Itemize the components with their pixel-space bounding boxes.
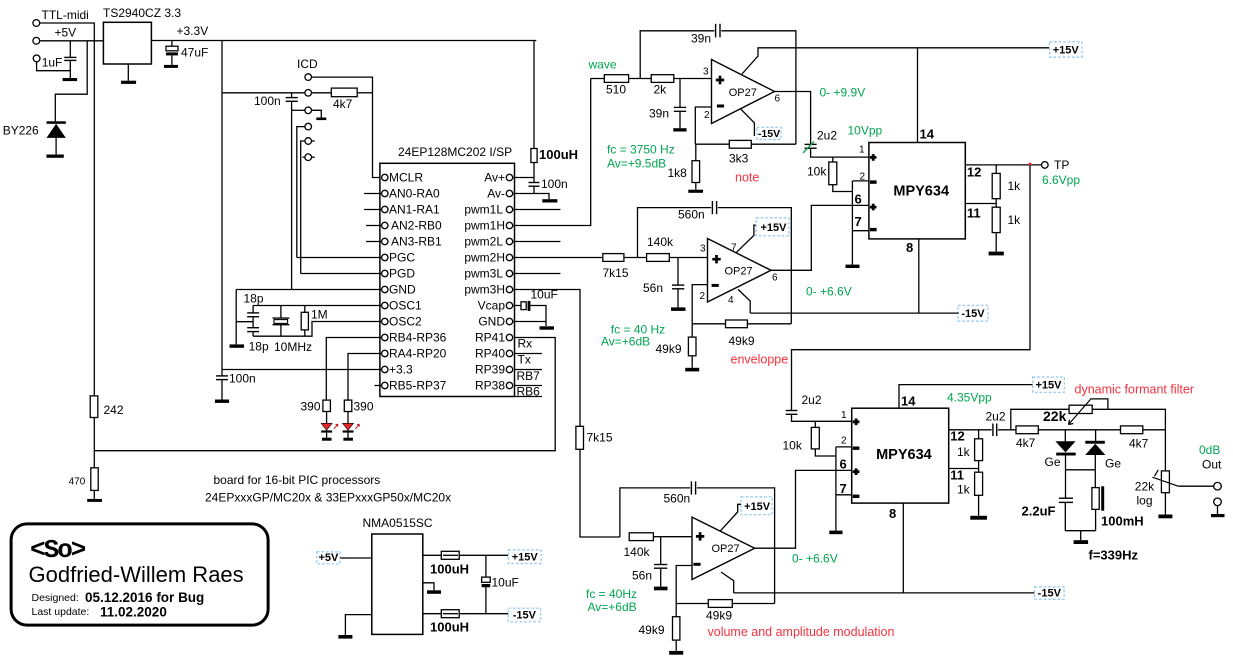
wire ICD pin1 to MCLR — [312, 77, 382, 177]
resistor 3k3 — [695, 143, 729, 145]
resistor 242 — [90, 396, 98, 418]
capacitor 18p upper — [252, 306, 254, 313]
test point TP — [1042, 162, 1049, 169]
svg-text:2: 2 — [860, 172, 866, 183]
svg-text:470: 470 — [69, 477, 86, 488]
svg-text:AN3-RB1: AN3-RB1 — [391, 235, 442, 249]
svg-text:6.6Vpp: 6.6Vpp — [1042, 173, 1080, 187]
svg-text:+15V: +15V — [512, 551, 539, 563]
svg-text:39n: 39n — [691, 32, 711, 46]
wire V- to -15V volume — [721, 572, 734, 593]
svg-text:14: 14 — [901, 394, 916, 409]
wire RB5 stub — [375, 385, 382, 387]
connector TTL-midi pin 1 — [33, 20, 40, 27]
capacitor 100n on +3.3 rail — [216, 375, 228, 377]
capacitor 2u2 — [805, 143, 817, 145]
ground under LED left — [322, 438, 332, 441]
pin PGC — [382, 254, 388, 260]
wire RP39 stub — [515, 369, 543, 371]
wire volume output to MPY2 pin6 — [755, 470, 852, 548]
capacitor 47uF — [171, 41, 173, 47]
svg-text:2: 2 — [700, 291, 706, 302]
wire Av- to ground — [513, 194, 549, 200]
svg-text:6: 6 — [855, 192, 862, 207]
svg-text:fc = 3750 Hz: fc = 3750 Hz — [607, 143, 675, 157]
wire RB4 to LED — [326, 338, 381, 401]
svg-text:22k: 22k — [1043, 408, 1067, 424]
svg-text:24EPxxxGP/MC20x & 33EPxxxGP50x: 24EPxxxGP/MC20x & 33EPxxxGP50x/MC20x — [205, 491, 451, 505]
svg-text:Av+: Av+ — [484, 171, 505, 185]
ground under 1k MPY2 — [970, 516, 987, 520]
svg-text:1k: 1k — [957, 445, 971, 459]
svg-text:242: 242 — [104, 403, 124, 417]
svg-text:+3.3: +3.3 — [389, 363, 413, 377]
wire pwm2L stub — [513, 241, 561, 243]
svg-text:100n: 100n — [541, 177, 568, 191]
svg-text:+5V: +5V — [55, 26, 77, 40]
svg-text:49k9: 49k9 — [656, 342, 682, 356]
resistor 1k upper — [995, 165, 997, 174]
power label -15V bottom — [1035, 587, 1065, 600]
pin +3.3 — [382, 366, 388, 372]
connector ICD pin 1 — [305, 74, 312, 81]
svg-text:AN1-RA1: AN1-RA1 — [389, 203, 440, 217]
resistor 1k upper MPY2 — [978, 430, 980, 439]
svg-text:PGC: PGC — [389, 251, 415, 265]
wire envelope output to MPY1 pin6 — [771, 205, 869, 270]
wire inverting input envelope — [692, 285, 707, 324]
resistor 1k lower MPY2 — [975, 472, 983, 495]
svg-text:11.02.2020: 11.02.2020 — [100, 605, 167, 620]
wire 18p mid node — [252, 317, 254, 328]
wire pin12 to TP — [965, 164, 1041, 166]
capacitor 56n — [677, 258, 679, 285]
wire 7k15 down to volume stage — [580, 449, 620, 537]
svg-text:10MHz: 10MHz — [274, 340, 312, 354]
resistor 4k7 left — [1016, 426, 1038, 434]
svg-text:+3.3V: +3.3V — [177, 24, 209, 38]
svg-text:100n: 100n — [254, 94, 281, 108]
svg-text:wave: wave — [588, 58, 617, 72]
svg-text:10uF: 10uF — [492, 576, 519, 590]
svg-text:47uF: 47uF — [181, 46, 208, 60]
wire Av+ — [513, 177, 534, 179]
connector ICD pin 6 — [305, 154, 312, 161]
connector TTL-midi pin 2 — [33, 37, 40, 44]
svg-text:RP39: RP39 — [475, 363, 505, 377]
capacitor 2.2uF — [1065, 470, 1067, 498]
power label +15V mid — [756, 218, 789, 236]
wire pin3 to 1uF bottom — [37, 62, 71, 71]
microcontroller U1 24EP128MC202 — [380, 163, 515, 396]
wire pin11 — [965, 203, 996, 205]
svg-text:4k7: 4k7 — [333, 97, 353, 111]
svg-text:RB7: RB7 — [517, 369, 541, 383]
wire LC bottom — [1065, 530, 1095, 532]
ground under 470 — [93, 490, 95, 499]
ground under 49k9 — [685, 368, 699, 372]
ground under bracket — [846, 265, 860, 268]
svg-text:2u2: 2u2 — [986, 410, 1006, 424]
svg-text:1uF: 1uF — [42, 56, 63, 70]
svg-text:49k9: 49k9 — [729, 334, 755, 348]
wire envelope feedback up — [638, 208, 712, 258]
wire node A — [629, 78, 652, 80]
wire op-amp V+ to +15V rail — [742, 48, 1050, 74]
svg-text:3: 3 — [700, 244, 706, 255]
ground at ICD pin3 — [316, 118, 326, 121]
ground under LC — [1074, 540, 1089, 544]
svg-text:49k9: 49k9 — [706, 609, 732, 623]
svg-text:MPY634: MPY634 — [876, 447, 932, 463]
svg-text:510: 510 — [606, 83, 626, 97]
wire ground bracket MPY2 — [835, 447, 837, 531]
power label -15V NMA — [508, 608, 540, 622]
ground of oscillator — [230, 344, 245, 347]
wire RP41 return line — [94, 338, 555, 451]
resistor 1k lower — [992, 207, 1000, 232]
capacitor 10uF at Vcap — [513, 305, 521, 307]
pin pwm1H — [506, 222, 512, 228]
wire 100n down to GND net — [291, 101, 293, 289]
ground under LED right — [343, 438, 353, 441]
svg-text:TS2940CZ 3.3: TS2940CZ 3.3 — [103, 6, 181, 20]
LED red right — [343, 423, 354, 430]
wire pin14 to +15V — [917, 48, 919, 143]
wire formant node — [998, 429, 1016, 431]
wire pin8 to -15V MPY2 — [902, 503, 904, 593]
wire diode link — [1066, 469, 1096, 471]
capacitor 2u2 formant — [992, 424, 994, 437]
svg-text:Av=+9.5dB: Av=+9.5dB — [607, 156, 666, 170]
capacitor 39n shunt — [679, 79, 681, 108]
crystal 10MHz — [280, 306, 282, 319]
svg-text:+15V: +15V — [744, 501, 771, 513]
wire 560n to feedback vertical — [697, 488, 775, 604]
ground under out — [1211, 514, 1225, 517]
capacitor 560n envelope — [711, 201, 713, 214]
svg-text:enveloppe: enveloppe — [731, 353, 789, 367]
connector ICD pin 4 — [305, 123, 312, 130]
svg-text:pwm1L: pwm1L — [464, 203, 503, 217]
wire pwm3H down — [513, 290, 580, 427]
junction dot red — [1029, 163, 1032, 166]
svg-text:4k7: 4k7 — [1129, 437, 1149, 451]
ground under 56n volume — [654, 587, 668, 591]
svg-text:+15V: +15V — [1053, 44, 1080, 56]
svg-text:1k8: 1k8 — [668, 166, 688, 180]
svg-text:8: 8 — [889, 506, 896, 521]
svg-text:100uH: 100uH — [539, 147, 578, 162]
pin pwm3L — [506, 270, 512, 276]
resistor 1M — [304, 306, 306, 313]
wire AN2 stub — [366, 225, 382, 227]
pin AN2-RB0 — [382, 222, 388, 228]
svg-text:note: note — [735, 171, 759, 185]
pin RP40 — [506, 350, 512, 356]
potentiometer 22k log — [1161, 471, 1169, 493]
svg-text:pwm3H: pwm3H — [464, 283, 505, 297]
svg-text:Av=+6dB: Av=+6dB — [588, 600, 637, 614]
svg-text:11: 11 — [950, 468, 964, 483]
wire +5V to regulator — [40, 40, 104, 42]
svg-text:NMA0515SC: NMA0515SC — [363, 516, 433, 530]
resistor 10k — [832, 157, 834, 162]
diode Ge left — [1064, 430, 1066, 443]
ground under 1k8 — [688, 190, 703, 193]
capacitor 100n at ICD — [291, 93, 293, 98]
wire pot to right vertical — [1092, 409, 1165, 471]
svg-text:22k: 22k — [1135, 480, 1155, 494]
svg-text:OSC2: OSC2 — [389, 315, 422, 329]
wire ICD pin6 stub — [303, 156, 305, 158]
wire RA4 to LED — [348, 354, 382, 401]
wire OSC2 line — [253, 322, 382, 337]
power label -15V mid — [958, 305, 988, 321]
svg-text:14: 14 — [920, 127, 935, 142]
svg-text:8: 8 — [906, 240, 913, 255]
wire AN3 stub — [366, 241, 382, 243]
svg-text:Rx: Rx — [518, 337, 533, 351]
ground under 100n — [215, 400, 229, 403]
resistor 470 — [91, 468, 98, 491]
wire feedback up — [640, 31, 714, 79]
wire VDD to ICD pin2 — [222, 92, 305, 94]
resistor 4k7 — [312, 92, 332, 94]
wire RP40 stub — [515, 353, 543, 355]
wire ICD pin5 to PGD — [301, 141, 305, 274]
connector ICD pin 2 — [305, 90, 312, 97]
svg-text:-15V: -15V — [758, 128, 780, 140]
ground under 39n — [673, 128, 686, 131]
wire pwm2H — [513, 257, 603, 259]
svg-text:f=339Hz: f=339Hz — [1089, 548, 1139, 563]
svg-text:0- +6.6V: 0- +6.6V — [806, 285, 852, 299]
svg-text:OSC1: OSC1 — [389, 299, 422, 313]
ground under 56n — [671, 307, 686, 311]
wire wiper to out — [1152, 470, 1178, 486]
svg-text:6: 6 — [772, 273, 778, 284]
wire PGC line — [297, 257, 382, 259]
pin RB5-RP37 — [382, 382, 388, 388]
wire NMA input return to ground — [345, 615, 371, 635]
wire TP node to MPY2 — [792, 165, 1031, 410]
svg-text:ICD: ICD — [297, 57, 318, 71]
svg-text:Out: Out — [1202, 458, 1222, 472]
svg-text:100uH: 100uH — [430, 562, 469, 577]
svg-text:BY226: BY226 — [3, 124, 39, 138]
svg-text:pwm1H: pwm1H — [464, 219, 505, 233]
svg-text:-15V: -15V — [1038, 587, 1062, 599]
svg-text:1k: 1k — [957, 483, 971, 497]
svg-text:0- +9.9V: 0- +9.9V — [820, 86, 866, 100]
pin RP41 — [506, 334, 512, 340]
resistor 49k9 shunt volume — [675, 604, 677, 617]
wire pwm1H to wave — [513, 79, 591, 226]
svg-text:7k15: 7k15 — [603, 266, 629, 280]
svg-text:6: 6 — [840, 457, 847, 472]
svg-text:12: 12 — [950, 429, 964, 444]
wire pin8 to -15V — [918, 239, 920, 313]
pin RA4-RP20 — [382, 350, 388, 356]
svg-text:2k: 2k — [654, 83, 668, 97]
wire pin14 to +15V MPY2 — [899, 385, 1033, 409]
wire +5V to NMA — [340, 557, 372, 559]
wire PGD line — [301, 273, 382, 275]
svg-text:-15V: -15V — [961, 308, 985, 320]
power label -15V top — [757, 127, 781, 140]
ground under 1uF — [63, 78, 78, 81]
wire Vcap to ground — [530, 306, 546, 327]
multiplier MPY634 upper — [869, 143, 965, 239]
svg-text:RB4-RP36: RB4-RP36 — [389, 331, 447, 345]
svg-text:fc = 40Hz: fc = 40Hz — [586, 587, 637, 601]
wire pwm1L stub — [513, 209, 561, 211]
inductor 100uH plus — [423, 554, 442, 556]
diode BY226 — [47, 121, 66, 124]
svg-text:Ge: Ge — [1105, 457, 1121, 471]
wire GND line — [236, 289, 381, 291]
svg-text:MPY634: MPY634 — [893, 184, 949, 200]
svg-text:100uH: 100uH — [430, 620, 469, 635]
connector TTL-midi pin 3 — [33, 55, 40, 62]
svg-text:3: 3 — [703, 67, 709, 78]
power label +5V NMA — [317, 552, 340, 564]
svg-text:18p: 18p — [244, 292, 264, 306]
svg-text:dynamic formant filter: dynamic formant filter — [1075, 383, 1194, 397]
capacitor 2u2 into MPY2 — [786, 410, 798, 412]
svg-text:560n: 560n — [664, 492, 691, 506]
wire GND branch down — [235, 290, 237, 345]
svg-text:7k15: 7k15 — [587, 431, 613, 445]
svg-text:2: 2 — [841, 436, 847, 447]
resistor 1k8 — [695, 144, 697, 161]
svg-text:1k: 1k — [1008, 213, 1022, 227]
pin GND right — [506, 318, 512, 324]
wire inverting input — [695, 107, 711, 144]
resistor 7k15 horizontal — [603, 254, 624, 262]
svg-text:56n: 56n — [632, 569, 652, 583]
resistor 390 left — [323, 400, 331, 411]
svg-text:1: 1 — [841, 410, 847, 421]
wire +3.3V rail — [151, 40, 536, 42]
inductor 100uH — [533, 41, 535, 149]
svg-text:+15V: +15V — [761, 222, 788, 234]
inductor 100mH — [1094, 470, 1096, 488]
svg-text:MCLR: MCLR — [389, 171, 423, 185]
wire -15V rail bottom — [734, 592, 1035, 594]
pin pwm2H — [506, 254, 512, 260]
pin PGD — [382, 270, 388, 276]
resistor 140k — [647, 254, 670, 262]
svg-text:2u2: 2u2 — [817, 129, 837, 143]
resistor 49k9 shunt — [691, 324, 693, 337]
connector Out pin 2 — [1214, 498, 1222, 506]
svg-text:3k3: 3k3 — [729, 152, 749, 166]
svg-text:pwm2L: pwm2L — [464, 235, 503, 249]
svg-text:49k9: 49k9 — [639, 623, 665, 637]
wire volume feedback up — [620, 488, 690, 537]
svg-text:7: 7 — [855, 214, 862, 229]
op-amp OP27 volume — [692, 517, 755, 579]
svg-text:100n: 100n — [229, 372, 256, 386]
svg-text:GND: GND — [478, 315, 505, 329]
wire ICD pin3 to ground — [292, 109, 305, 111]
capacitor 39n feedback — [715, 24, 717, 38]
pin MCLR — [382, 174, 388, 180]
pin OSC2 — [382, 318, 388, 324]
pin pwm3H — [506, 286, 512, 292]
pin RB4-RP36 — [382, 334, 388, 340]
svg-text:log: log — [1137, 494, 1153, 508]
svg-text:TP: TP — [1054, 158, 1069, 172]
svg-text:RP40: RP40 — [475, 347, 505, 361]
ground under bracket MPY2 — [829, 531, 842, 535]
logo box — [11, 524, 268, 625]
resistor 2k — [651, 75, 674, 83]
wire V+ to +15V volume — [720, 504, 744, 531]
svg-text:RP38: RP38 — [475, 379, 505, 393]
wire -15V rail mid — [750, 312, 959, 314]
op-amp OP27 envelope — [708, 239, 772, 303]
svg-text:4k7: 4k7 — [1016, 436, 1036, 450]
capacitor 18p lower — [247, 327, 259, 329]
svg-text:Av=+6dB: Av=+6dB — [601, 335, 650, 349]
wire +3.3V branch rail — [221, 41, 223, 376]
svg-text:board for 16-bit PIC processor: board for 16-bit PIC processors — [214, 473, 381, 487]
resistor 4k7 right — [1121, 426, 1143, 434]
ground under 47uF — [164, 65, 178, 68]
wire ICD pin4 to PGC — [297, 127, 305, 258]
svg-text:390: 390 — [301, 400, 321, 414]
svg-text:RB5-RP37: RB5-RP37 — [389, 379, 447, 393]
capacitor 100n at Av — [533, 178, 535, 183]
wire 2u2 to MPY2 pin1 — [792, 414, 852, 421]
svg-text:+5V: +5V — [318, 552, 339, 564]
wire inverting input volume — [676, 566, 692, 604]
svg-text:24EP128MC202 I/SP: 24EP128MC202 I/SP — [398, 145, 512, 159]
pin RP38 — [506, 382, 512, 388]
resistor 49k9 feedback — [692, 323, 725, 325]
pin pwm2L — [506, 238, 512, 244]
power label +15V — [1050, 42, 1083, 57]
multiplier MPY634 lower — [852, 408, 949, 503]
svg-text:+15V: +15V — [1036, 380, 1063, 392]
svg-text:18p: 18p — [249, 340, 269, 354]
wire V+ to +15V — [736, 225, 759, 253]
capacitor 10uF NMA — [485, 555, 487, 577]
wire AN0 stub — [364, 193, 382, 195]
pin AN0-RA0 — [382, 190, 388, 196]
svg-text:4: 4 — [728, 295, 734, 306]
resistor 10k MPY2 — [814, 421, 816, 427]
svg-text:PGD: PGD — [389, 267, 415, 281]
svg-text:OP27: OP27 — [712, 543, 740, 555]
svg-text:2.2uF: 2.2uF — [1022, 504, 1056, 519]
svg-text:AN2-RB0: AN2-RB0 — [391, 219, 442, 233]
svg-text:GND: GND — [389, 283, 416, 297]
potentiometer 22k — [1069, 405, 1092, 413]
svg-text:12: 12 — [967, 165, 981, 180]
svg-text:OP27: OP27 — [729, 87, 757, 99]
svg-text:1M: 1M — [311, 308, 328, 322]
wire pin12 out — [949, 429, 992, 431]
wire V- to -15V rail — [738, 289, 750, 313]
svg-text:10uF: 10uF — [531, 288, 558, 302]
svg-text:Godfried-Willem Raes: Godfried-Willem Raes — [29, 562, 244, 587]
wire 2u2 to MPY pin1 — [811, 148, 869, 157]
svg-text:11: 11 — [967, 206, 981, 221]
